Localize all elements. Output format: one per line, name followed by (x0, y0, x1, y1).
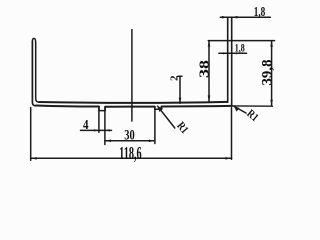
leader R1 right (234, 106, 246, 113)
leader line 2 (178, 76, 182, 103)
svg-text:1,8: 1,8 (235, 41, 245, 55)
left flange top cap (32, 38, 35, 43)
leader R1 left (158, 106, 175, 128)
svg-text:38: 38 (198, 60, 213, 78)
arrow 118,6 left (31, 157, 37, 160)
dim line 4 (81, 129, 112, 131)
dim line 118,6 (31, 157, 232, 159)
flange top level extension line (208, 40, 274, 42)
svg-text:R1: R1 (174, 120, 190, 136)
dim line 1,8 top (220, 16, 270, 18)
underline of 1,8 #2 (219, 52, 247, 54)
base bottom line (36, 106, 232, 107)
arrow 38 top (208, 41, 211, 47)
ext line 118,6 right (231, 108, 233, 160)
right flange outer wall (231, 17, 233, 106)
dim line 30 (105, 140, 155, 142)
svg-text:118,6: 118,6 (119, 143, 142, 163)
arrow 39,8 bottom (270, 100, 273, 106)
extension line x=105 (104, 107, 106, 145)
arrow 1,8#2 left (223, 52, 228, 54)
arrow 30 right (149, 140, 155, 143)
arrow 39,8 top (270, 41, 273, 47)
dim line 38 (208, 41, 210, 102)
arrow R1 left (158, 106, 163, 112)
base bottom step notch at R1 (155, 107, 162, 110)
centerline (131, 30, 133, 121)
arrow 30 left (105, 140, 111, 143)
arrow 118,6 right (226, 157, 232, 160)
arrow 4 left (94, 129, 99, 131)
right flange inner wall (227, 17, 229, 102)
arrow R1 right (234, 106, 240, 111)
arrow 1,8#2 right (232, 52, 237, 54)
svg-text:R1: R1 (244, 108, 260, 124)
dim line 39,8 (271, 41, 273, 106)
svg-text:1,8: 1,8 (254, 4, 266, 19)
base bottom notch (4mm groove) (99, 107, 105, 111)
extension line x=99 (98, 107, 100, 132)
arrow 2 bottom (179, 98, 182, 104)
svg-text:2: 2 (170, 76, 181, 82)
arrow 1,8 top right (232, 16, 238, 19)
svg-text:30: 30 (124, 127, 135, 143)
svg-text:39,8: 39,8 (259, 60, 275, 86)
base top line (39, 102, 227, 103)
ext line 118,6 left (30, 108, 32, 161)
left flange outer wall (32, 42, 36, 106)
arrow 4 right (105, 129, 110, 131)
base bottom extension right (232, 105, 273, 107)
left flange inner wall (36, 43, 40, 102)
extension line x=155 (154, 107, 156, 144)
svg-text:4: 4 (83, 117, 89, 132)
arrow 1,8 top left (222, 16, 228, 19)
arrow 38 bottom (208, 96, 211, 102)
